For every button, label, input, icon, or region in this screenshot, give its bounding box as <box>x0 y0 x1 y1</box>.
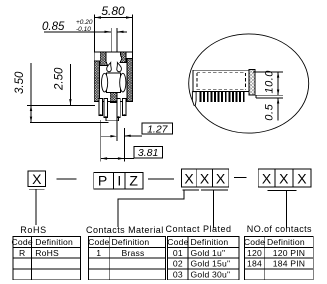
body bottom edge <box>94 101 132 103</box>
svg-text:184: 184 <box>247 259 262 269</box>
side view left hook <box>192 92 196 106</box>
svg-text:Code: Code <box>12 237 33 247</box>
dimension 5.80 <box>95 4 133 52</box>
dimension 10.0 <box>250 70 283 95</box>
svg-text:I: I <box>117 173 121 189</box>
side view body <box>193 70 256 98</box>
svg-text:2.50: 2.50 <box>54 67 66 91</box>
svg-text:RoHS: RoHS <box>20 225 46 235</box>
detail ellipse <box>189 34 309 133</box>
table RoHS <box>12 237 81 280</box>
dash 2 <box>148 178 174 180</box>
dimension 3.81 boxed label and leader <box>101 120 163 162</box>
svg-text:X: X <box>279 171 289 187</box>
svg-text:X: X <box>200 171 210 187</box>
svg-text:Definition: Definition <box>191 237 229 247</box>
svg-text:NO.of contacts: NO.of contacts <box>247 224 312 234</box>
pin legs <box>99 99 126 118</box>
part number boxes XXX group 1 <box>181 169 228 190</box>
connector body cross-section <box>94 52 132 103</box>
dash 1 <box>57 178 77 180</box>
contact springs (left and right) <box>102 63 126 93</box>
svg-text:X: X <box>32 171 42 187</box>
svg-text:Definition: Definition <box>35 237 73 247</box>
part number boxes PIZ <box>94 173 143 189</box>
svg-text:Code: Code <box>244 237 265 247</box>
table Contact Plated <box>167 237 239 280</box>
svg-text:120: 120 <box>247 248 262 258</box>
svg-text:3.50: 3.50 <box>14 71 26 94</box>
svg-text:5.80: 5.80 <box>101 4 125 18</box>
svg-text:Contacts Material: Contacts Material <box>86 225 164 235</box>
svg-text:P: P <box>98 173 107 189</box>
svg-text:RoHS: RoHS <box>35 248 59 258</box>
svg-text:0.5: 0.5 <box>264 103 276 120</box>
svg-text:Code: Code <box>88 237 109 247</box>
svg-text:1: 1 <box>96 248 101 258</box>
pin leg tips <box>99 114 125 118</box>
dimension 1.27 boxed label and leader <box>100 118 172 141</box>
svg-text:X: X <box>262 171 272 187</box>
svg-text:Definition: Definition <box>267 237 305 247</box>
svg-text:02: 02 <box>173 259 183 269</box>
svg-text:3.81: 3.81 <box>138 147 158 159</box>
dimension 0.85 +0.20/-0.10 <box>42 19 127 62</box>
svg-text:Contact Plated: Contact Plated <box>166 224 232 234</box>
svg-text:10.0: 10.0 <box>264 70 276 94</box>
svg-text:184 PIN: 184 PIN <box>273 259 305 269</box>
leader XXX2 to NO.of contacts <box>267 191 296 228</box>
svg-text:0.85: 0.85 <box>42 21 65 33</box>
svg-text:X: X <box>216 171 226 187</box>
table NO.of contacts <box>244 237 313 280</box>
svg-text:R: R <box>19 248 25 258</box>
seating bracket under middle legs <box>106 117 119 121</box>
part number box X <box>28 171 45 189</box>
svg-text:01: 01 <box>173 248 183 258</box>
svg-text:X: X <box>297 171 307 187</box>
svg-text:Definition: Definition <box>112 237 150 247</box>
svg-text:Z: Z <box>129 173 138 189</box>
svg-text:Brass: Brass <box>122 248 145 258</box>
svg-text:Gold 15u": Gold 15u" <box>191 259 231 269</box>
svg-text:Gold 30u": Gold 30u" <box>191 269 231 279</box>
dimension 3.50 <box>14 63 109 122</box>
dimension 2.50 <box>54 64 72 105</box>
svg-text:+0.20: +0.20 <box>76 19 93 26</box>
svg-text:X: X <box>184 171 194 187</box>
leader XXX1 to Contact Plated <box>213 190 215 229</box>
leader X to RoHS <box>35 189 37 225</box>
dash 3 <box>234 177 246 179</box>
side view pin comb <box>200 92 245 102</box>
leader XXX1 to Contacts Material <box>118 190 184 227</box>
svg-text:120 PIN: 120 PIN <box>273 248 305 258</box>
part number boxes XXX group 2 <box>258 169 311 187</box>
dimension 0.5 <box>256 98 283 121</box>
svg-text:1.27: 1.27 <box>147 123 169 135</box>
svg-text:03: 03 <box>173 269 183 279</box>
table Contacts Material <box>88 237 165 280</box>
svg-text:Code: Code <box>167 237 188 247</box>
svg-text:Gold 1u": Gold 1u" <box>191 248 226 258</box>
